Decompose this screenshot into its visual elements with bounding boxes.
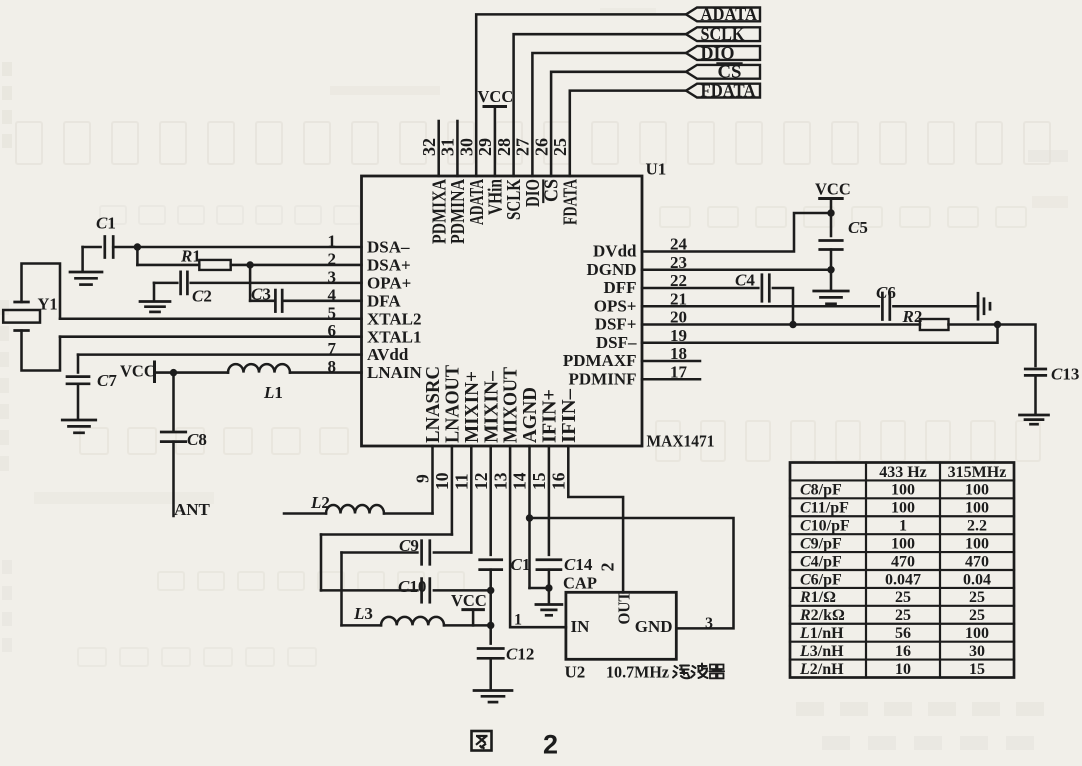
svg-text:17: 17: [670, 362, 688, 381]
svg-text:25: 25: [895, 607, 911, 624]
svg-text:Y1: Y1: [38, 295, 58, 314]
svg-text:DFA: DFA: [367, 291, 401, 310]
svg-text:C9/pF: C9/pF: [800, 535, 842, 552]
svg-text:ANT: ANT: [174, 500, 211, 519]
svg-text:29: 29: [475, 138, 495, 156]
svg-text:L1: L1: [263, 383, 283, 402]
svg-text:C3: C3: [251, 285, 271, 304]
svg-text:470: 470: [891, 553, 915, 570]
svg-text:IFIN–: IFIN–: [558, 388, 580, 443]
svg-text:C7: C7: [97, 371, 117, 390]
svg-text:28: 28: [494, 138, 514, 156]
svg-text:11: 11: [452, 473, 472, 490]
svg-text:1: 1: [328, 232, 337, 251]
svg-text:U2: U2: [565, 663, 586, 682]
svg-text:DIO: DIO: [701, 43, 735, 63]
svg-text:R1/Ω: R1/Ω: [799, 589, 836, 606]
svg-text:CS: CS: [718, 62, 742, 82]
svg-text:FDATA: FDATA: [559, 179, 581, 225]
svg-text:15: 15: [969, 661, 985, 678]
svg-text:3: 3: [705, 615, 713, 632]
svg-text:100: 100: [891, 535, 915, 552]
svg-text:1: 1: [899, 518, 907, 535]
svg-text:DSA–: DSA–: [367, 238, 410, 257]
svg-text:C10: C10: [398, 577, 426, 596]
svg-text:DSF+: DSF+: [595, 315, 637, 334]
svg-text:DSF–: DSF–: [596, 333, 637, 352]
svg-text:CAP: CAP: [563, 574, 597, 593]
svg-text:1: 1: [514, 612, 522, 629]
svg-text:100: 100: [891, 482, 915, 499]
svg-text:470: 470: [965, 553, 989, 570]
svg-text:C1: C1: [511, 555, 531, 574]
svg-text:ADATA: ADATA: [701, 4, 758, 24]
svg-text:C14: C14: [564, 555, 593, 574]
svg-text:18: 18: [670, 344, 687, 363]
svg-text:433 Hz: 433 Hz: [879, 464, 927, 481]
svg-text:GND: GND: [635, 617, 673, 636]
svg-text:XTAL1: XTAL1: [367, 327, 421, 346]
svg-text:C4: C4: [735, 271, 755, 290]
svg-text:C9: C9: [399, 536, 419, 555]
svg-text:VCC: VCC: [815, 180, 851, 199]
svg-text:9: 9: [413, 474, 433, 483]
svg-text:7: 7: [328, 339, 337, 358]
svg-text:100: 100: [965, 535, 989, 552]
svg-text:SCLK: SCLK: [701, 24, 745, 44]
svg-text:C5: C5: [848, 218, 868, 237]
svg-text:30: 30: [456, 138, 476, 156]
svg-text:PDMAXF: PDMAXF: [563, 351, 637, 370]
svg-text:C6: C6: [876, 283, 896, 302]
svg-text:25: 25: [550, 138, 570, 156]
svg-text:OPS+: OPS+: [594, 296, 637, 315]
svg-text:DFF: DFF: [603, 278, 636, 297]
svg-text:10.7MHz: 10.7MHz: [606, 663, 669, 682]
svg-text:24: 24: [670, 235, 688, 254]
svg-text:27: 27: [513, 138, 533, 156]
svg-text:10: 10: [432, 472, 452, 490]
svg-text:R2/kΩ: R2/kΩ: [799, 607, 845, 624]
svg-text:13: 13: [490, 472, 510, 490]
svg-text:25: 25: [969, 589, 985, 606]
svg-text:XTAL2: XTAL2: [367, 309, 421, 328]
svg-text:L3: L3: [353, 604, 373, 623]
svg-text:VCC: VCC: [478, 87, 514, 106]
svg-text:100: 100: [965, 500, 989, 517]
svg-text:R2: R2: [902, 307, 923, 326]
svg-text:L3/nH: L3/nH: [799, 643, 844, 660]
svg-text:8: 8: [328, 357, 337, 376]
svg-text:VCC: VCC: [120, 362, 156, 381]
svg-text:R1: R1: [180, 247, 201, 266]
svg-text:L2: L2: [310, 493, 330, 512]
svg-text:315MHz: 315MHz: [948, 464, 1007, 481]
svg-text:IN: IN: [571, 617, 591, 636]
svg-text:PDMINF: PDMINF: [569, 369, 637, 388]
svg-text:U1: U1: [646, 160, 667, 179]
svg-text:20: 20: [670, 308, 687, 327]
svg-text:C2: C2: [192, 287, 212, 306]
svg-text:C8/pF: C8/pF: [800, 482, 842, 499]
svg-text:12: 12: [471, 473, 491, 491]
svg-text:0.047: 0.047: [885, 571, 921, 588]
svg-text:6: 6: [328, 321, 337, 340]
svg-text:C13: C13: [1051, 365, 1079, 384]
svg-text:DGND: DGND: [586, 260, 636, 279]
svg-text:16: 16: [549, 472, 569, 490]
svg-text:C11/pF: C11/pF: [800, 500, 849, 517]
svg-text:OPA+: OPA+: [367, 273, 411, 292]
svg-text:19: 19: [670, 326, 687, 345]
svg-text:15: 15: [529, 472, 549, 490]
svg-text:2: 2: [543, 730, 558, 760]
svg-text:100: 100: [891, 500, 915, 517]
svg-text:5: 5: [328, 303, 337, 322]
svg-text:32: 32: [419, 138, 439, 156]
svg-text:30: 30: [969, 643, 985, 660]
svg-text:FDATA: FDATA: [701, 80, 756, 100]
svg-text:2: 2: [328, 249, 337, 268]
svg-text:14: 14: [510, 472, 530, 490]
svg-text:C10/pF: C10/pF: [800, 518, 850, 535]
svg-text:26: 26: [531, 138, 551, 156]
svg-text:C12: C12: [506, 645, 534, 664]
svg-text:23: 23: [670, 253, 687, 272]
svg-text:DVdd: DVdd: [593, 242, 637, 261]
svg-text:LNAIN: LNAIN: [367, 363, 423, 382]
svg-text:L2/nH: L2/nH: [799, 661, 844, 678]
svg-text:C6/pF: C6/pF: [800, 571, 842, 588]
svg-text:2.2: 2.2: [967, 518, 987, 535]
svg-text:25: 25: [895, 589, 911, 606]
svg-text:3: 3: [328, 267, 337, 286]
svg-text:4: 4: [328, 285, 337, 304]
svg-text:100: 100: [965, 625, 989, 642]
svg-text:AVdd: AVdd: [367, 345, 409, 364]
svg-text:L1/nH: L1/nH: [799, 625, 844, 642]
svg-text:VCC: VCC: [451, 591, 487, 610]
svg-text:0.04: 0.04: [963, 571, 991, 588]
svg-text:C4/pF: C4/pF: [800, 553, 842, 570]
svg-text:10: 10: [895, 661, 911, 678]
svg-text:100: 100: [965, 482, 989, 499]
svg-text:C1: C1: [96, 214, 116, 233]
svg-text:C8: C8: [187, 430, 207, 449]
svg-text:31: 31: [438, 138, 458, 156]
svg-text:MAX1471: MAX1471: [647, 432, 715, 451]
svg-text:25: 25: [969, 607, 985, 624]
svg-text:2: 2: [598, 563, 618, 572]
svg-text:OUT: OUT: [615, 591, 634, 625]
svg-text:DSA+: DSA+: [367, 256, 411, 275]
svg-text:16: 16: [895, 643, 911, 660]
svg-text:21: 21: [670, 289, 687, 308]
svg-text:56: 56: [895, 625, 911, 642]
svg-text:22: 22: [670, 271, 687, 290]
